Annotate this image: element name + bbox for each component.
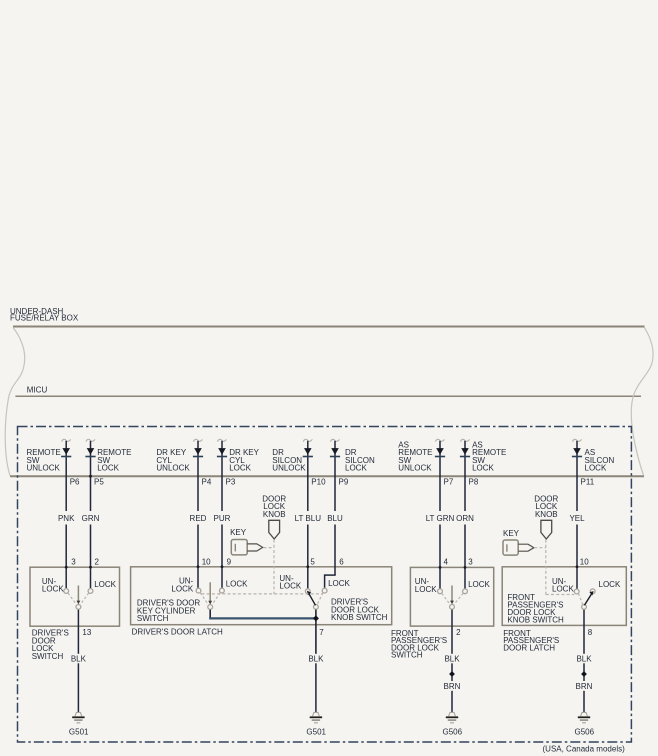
svg-text:BRN: BRN bbox=[444, 682, 461, 691]
svg-text:KNOB: KNOB bbox=[263, 510, 286, 519]
svg-text:KEY: KEY bbox=[230, 528, 247, 537]
svg-text:LOCK: LOCK bbox=[229, 464, 251, 473]
svg-text:P7: P7 bbox=[444, 477, 454, 486]
svg-text:UNLOCK: UNLOCK bbox=[27, 464, 61, 473]
svg-text:LOCK: LOCK bbox=[552, 585, 574, 594]
svg-text:LOCK: LOCK bbox=[585, 464, 607, 473]
svg-text:BLU: BLU bbox=[327, 514, 343, 523]
svg-text:2: 2 bbox=[456, 628, 461, 637]
svg-text:KNOB: KNOB bbox=[535, 510, 558, 519]
svg-text:GRN: GRN bbox=[82, 514, 100, 523]
svg-text:DRIVER'S DOOR LATCH: DRIVER'S DOOR LATCH bbox=[132, 627, 223, 636]
svg-text:KNOB SWITCH: KNOB SWITCH bbox=[331, 613, 388, 622]
svg-text:SWITCH: SWITCH bbox=[32, 652, 64, 661]
svg-text:ORN: ORN bbox=[456, 514, 474, 523]
svg-text:P10: P10 bbox=[311, 477, 326, 486]
svg-text:2: 2 bbox=[95, 557, 100, 566]
svg-text:LOCK: LOCK bbox=[345, 464, 367, 473]
svg-text:LOCK: LOCK bbox=[472, 464, 494, 473]
svg-text:G501: G501 bbox=[69, 728, 89, 737]
svg-text:LOCK: LOCK bbox=[599, 580, 621, 589]
svg-text:BLK: BLK bbox=[444, 654, 460, 663]
svg-text:MICU: MICU bbox=[27, 385, 48, 394]
svg-text:9: 9 bbox=[227, 557, 232, 566]
svg-text:10: 10 bbox=[202, 557, 211, 566]
svg-text:P8: P8 bbox=[469, 477, 479, 486]
svg-text:LOCK: LOCK bbox=[468, 580, 490, 589]
svg-text:BLK: BLK bbox=[71, 654, 87, 663]
svg-text:SWITCH: SWITCH bbox=[137, 614, 169, 623]
svg-text:LOCK: LOCK bbox=[226, 580, 248, 589]
svg-text:LT BLU: LT BLU bbox=[295, 514, 322, 523]
svg-text:PUR: PUR bbox=[214, 514, 231, 523]
svg-text:FUSE/RELAY BOX: FUSE/RELAY BOX bbox=[10, 314, 79, 323]
svg-text:LOCK: LOCK bbox=[42, 585, 64, 594]
svg-text:KEY: KEY bbox=[503, 529, 520, 538]
svg-text:5: 5 bbox=[310, 557, 315, 566]
svg-text:BRN: BRN bbox=[576, 682, 593, 691]
svg-text:BLK: BLK bbox=[576, 654, 592, 663]
svg-text:LOCK: LOCK bbox=[94, 580, 116, 589]
svg-text:P4: P4 bbox=[202, 477, 212, 486]
svg-text:RED: RED bbox=[190, 514, 207, 523]
svg-text:3: 3 bbox=[468, 557, 473, 566]
svg-text:LT GRN: LT GRN bbox=[426, 514, 455, 523]
svg-text:UNLOCK: UNLOCK bbox=[398, 464, 432, 473]
svg-text:DOOR LATCH: DOOR LATCH bbox=[503, 643, 555, 652]
svg-text:P6: P6 bbox=[70, 477, 80, 486]
svg-text:G506: G506 bbox=[443, 728, 463, 737]
svg-text:P9: P9 bbox=[339, 477, 349, 486]
svg-text:BLK: BLK bbox=[308, 654, 324, 663]
svg-text:KNOB SWITCH: KNOB SWITCH bbox=[507, 615, 564, 624]
svg-text:6: 6 bbox=[339, 557, 344, 566]
svg-text:3: 3 bbox=[71, 557, 76, 566]
svg-text:LOCK: LOCK bbox=[97, 464, 119, 473]
svg-text:8: 8 bbox=[588, 628, 593, 637]
svg-text:P5: P5 bbox=[94, 477, 104, 486]
svg-text:LOCK: LOCK bbox=[171, 584, 193, 593]
svg-text:P3: P3 bbox=[226, 477, 236, 486]
svg-text:7: 7 bbox=[319, 628, 324, 637]
svg-text:SWITCH: SWITCH bbox=[391, 651, 423, 660]
svg-text:13: 13 bbox=[82, 628, 91, 637]
svg-text:LOCK: LOCK bbox=[328, 579, 350, 588]
svg-text:YEL: YEL bbox=[569, 514, 585, 523]
svg-text:4: 4 bbox=[444, 557, 449, 566]
svg-text:G506: G506 bbox=[575, 728, 595, 737]
svg-text:LOCK: LOCK bbox=[279, 582, 301, 591]
svg-text:(USA, Canada models): (USA, Canada models) bbox=[543, 745, 626, 754]
svg-text:10: 10 bbox=[580, 557, 589, 566]
svg-text:G501: G501 bbox=[306, 728, 326, 737]
svg-text:LOCK: LOCK bbox=[415, 585, 437, 594]
svg-text:UNLOCK: UNLOCK bbox=[272, 464, 306, 473]
svg-text:PNK: PNK bbox=[58, 514, 75, 523]
svg-text:UNLOCK: UNLOCK bbox=[156, 464, 190, 473]
svg-text:P11: P11 bbox=[581, 477, 595, 486]
